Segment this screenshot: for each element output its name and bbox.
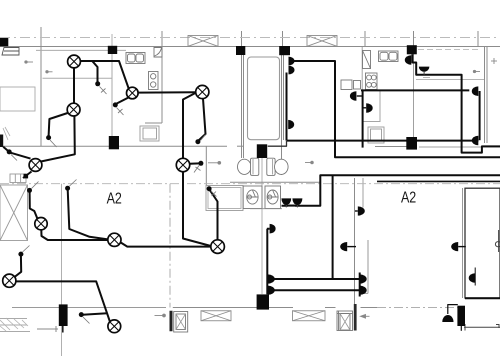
svg-text:A2: A2 (401, 189, 416, 207)
svg-text:A2: A2 (107, 190, 122, 208)
